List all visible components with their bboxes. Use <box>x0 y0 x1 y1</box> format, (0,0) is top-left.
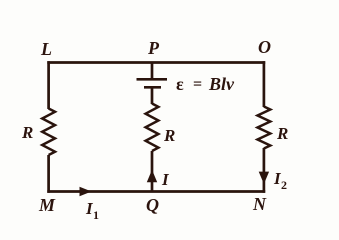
node O label <box>258 37 271 57</box>
arrowhead current I on middle wire (up) <box>147 170 157 182</box>
arrowhead current I2 on right wire (down) <box>259 172 269 184</box>
wire middle lower (R2 to Q) <box>151 151 154 192</box>
svg-text:P: P <box>147 38 160 58</box>
battery stub to R2 <box>151 89 154 105</box>
label R of resistor R3 <box>276 124 288 143</box>
node Q label <box>146 195 159 215</box>
wire left lower (R1 to M) <box>47 155 50 193</box>
wire left upper (L to R1) <box>47 61 50 109</box>
svg-text:O: O <box>258 37 271 57</box>
resistor R1 <box>42 109 55 156</box>
svg-text:I: I <box>161 170 170 189</box>
battery short plate <box>144 86 161 89</box>
svg-text:R: R <box>21 123 33 142</box>
node M label <box>38 195 56 215</box>
label EMF equation e = Blv <box>176 74 235 94</box>
resistor R2 <box>146 104 159 152</box>
svg-text:N: N <box>252 194 267 214</box>
node N label <box>252 194 267 214</box>
svg-text:ε: ε <box>176 74 184 94</box>
resistor R3 <box>258 107 271 149</box>
svg-text:M: M <box>38 195 56 215</box>
svg-text:Blv: Blv <box>208 74 235 94</box>
svg-text:2: 2 <box>281 178 287 192</box>
wire right lower (R3 to N) <box>263 148 266 193</box>
battery stub from P <box>151 63 154 79</box>
svg-text:1: 1 <box>93 208 99 222</box>
wire right upper (O to R3) <box>263 61 266 107</box>
label R of resistor R2 <box>163 126 175 145</box>
label current I2 <box>273 169 287 192</box>
wire top L-P-O <box>47 61 265 64</box>
svg-text:R: R <box>276 124 288 143</box>
svg-text:=: = <box>193 76 202 93</box>
svg-text:R: R <box>163 126 175 145</box>
label current I1 <box>85 199 99 222</box>
arrowhead current I1 on bottom wire <box>80 187 92 196</box>
battery long plate <box>137 78 168 81</box>
label R of resistor R1 <box>21 123 33 142</box>
svg-text:L: L <box>40 39 52 59</box>
node P label <box>147 38 160 58</box>
label current I <box>161 170 170 189</box>
svg-text:Q: Q <box>146 195 159 215</box>
node L label <box>40 39 52 59</box>
wire bottom M-Q-N <box>47 190 265 193</box>
